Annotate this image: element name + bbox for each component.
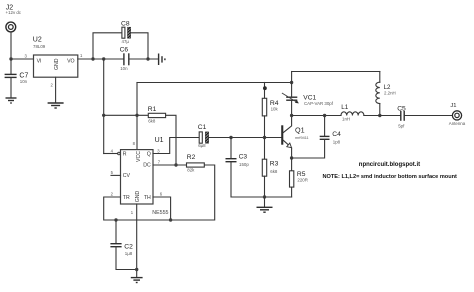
svg-text:CAP-VAR 30pf: CAP-VAR 30pf	[304, 101, 334, 106]
wire pin5 stub	[111, 174, 121, 176]
node bottom R3	[263, 195, 266, 198]
svg-text:2.2nH: 2.2nH	[384, 90, 396, 95]
svg-text:C1: C1	[198, 124, 207, 131]
resistor R3	[262, 138, 278, 198]
capacitor C2	[110, 220, 136, 270]
svg-text:78L09: 78L09	[33, 44, 46, 49]
capacitor C6	[120, 47, 129, 72]
node C8 branch	[91, 57, 94, 60]
svg-text:47µ: 47µ	[122, 39, 130, 44]
svg-text:npncircuit.blogspot.it: npncircuit.blogspot.it	[359, 162, 420, 168]
svg-text:R: R	[123, 151, 127, 157]
transistor Q1	[281, 116, 308, 159]
svg-text:C5: C5	[397, 105, 406, 112]
svg-text:6k8: 6k8	[148, 118, 156, 123]
svg-text:GND: GND	[135, 191, 141, 203]
svg-text:CV: CV	[123, 173, 131, 179]
capacitor C1 electrolytic	[198, 124, 209, 148]
svg-text:1p8: 1p8	[333, 139, 341, 144]
node TH-bottom	[169, 218, 172, 221]
ground under U2	[48, 103, 64, 108]
svg-text:J1: J1	[450, 103, 456, 109]
svg-text:VI: VI	[37, 59, 42, 65]
wire VO to C6	[78, 58, 124, 60]
wire to U2 VI	[11, 58, 34, 60]
wire base line	[209, 137, 282, 139]
IC U1 NE555 timer	[111, 137, 169, 216]
wire vcc feed	[104, 114, 149, 116]
connector J2	[6, 5, 22, 32]
svg-text:82k: 82k	[187, 168, 195, 173]
node vcc-stub	[135, 114, 138, 117]
node collector	[290, 114, 293, 117]
wire vcc vertical	[136, 83, 138, 150]
svg-text:GND: GND	[54, 58, 60, 70]
ground under 555	[131, 278, 143, 283]
svg-text:TH: TH	[144, 195, 151, 201]
svg-text:Q1: Q1	[295, 125, 305, 134]
capacitor C3	[226, 138, 292, 198]
regulator U2 78L09	[33, 37, 83, 77]
svg-text:5pf: 5pf	[398, 123, 405, 128]
capacitor C7	[5, 59, 29, 98]
wire pin6 TH drop	[153, 197, 171, 220]
resistor R1	[148, 106, 166, 123]
wire 555 gnd stem	[136, 204, 138, 277]
wire pin2 TR loop	[104, 165, 215, 220]
capacitor C5	[397, 105, 452, 128]
svg-text:NE555: NE555	[152, 210, 168, 216]
resistor R5	[290, 158, 308, 197]
node supply-left	[9, 57, 12, 60]
inductor L1	[341, 104, 364, 121]
svg-text:mrf9411: mrf9411	[295, 136, 309, 140]
varcap VC1	[282, 72, 334, 116]
svg-text:10n: 10n	[120, 66, 128, 71]
inductor L2	[376, 72, 396, 116]
svg-text:NOTE: L1,L2= smd inductor bott: NOTE: L1,L2= smd inductor bottom surface…	[323, 174, 458, 180]
svg-text:DC: DC	[143, 162, 151, 168]
wire pin7 DC	[153, 164, 187, 166]
capacitor C4	[292, 116, 342, 159]
wire supply drop to pin4	[103, 59, 105, 154]
U2 GND pin wire	[55, 77, 57, 102]
svg-text:1µ8: 1µ8	[125, 251, 133, 256]
svg-text:U2: U2	[33, 37, 42, 44]
node C2 top	[114, 218, 117, 221]
svg-text:150p: 150p	[239, 162, 249, 167]
svg-text:Q: Q	[147, 151, 151, 157]
svg-text:220R: 220R	[297, 177, 308, 182]
node DC junction	[174, 163, 177, 166]
svg-text:6k8: 6k8	[270, 169, 278, 174]
svg-text:C2: C2	[124, 243, 133, 250]
svg-text:R2: R2	[187, 154, 196, 161]
resistor R2	[187, 154, 205, 173]
connector J1	[449, 103, 466, 126]
node supply-VC1	[290, 81, 293, 84]
node gnd-C2	[135, 268, 138, 271]
node C8 right	[146, 57, 149, 60]
wire top RF rail	[292, 71, 380, 73]
svg-text:C4: C4	[332, 131, 341, 138]
svg-text:10n: 10n	[20, 79, 28, 84]
wire J2 to supply node	[10, 32, 12, 59]
svg-text:VO: VO	[67, 59, 75, 65]
wire R1 to DC	[166, 115, 176, 165]
node C3 top	[229, 136, 232, 139]
wire pin3 Q to C1	[153, 138, 199, 154]
capacitor C8 electrolytic	[121, 21, 131, 44]
wire C6 to ground-right	[129, 58, 158, 60]
ground under R3	[257, 197, 273, 212]
wire pin4	[104, 153, 118, 155]
svg-text:R1: R1	[148, 106, 157, 113]
wire top rail	[137, 82, 292, 84]
svg-text:10k: 10k	[271, 106, 279, 111]
resistor R4	[262, 83, 279, 138]
svg-text:Antenna: Antenna	[449, 121, 466, 126]
wire C8 right	[131, 33, 148, 59]
node L2 bottom	[378, 114, 381, 117]
node pin4 drop	[102, 57, 105, 60]
node emitter	[290, 156, 293, 159]
wire tank line left	[292, 115, 341, 117]
node vcc-feed-left	[102, 114, 105, 117]
svg-text:TR: TR	[123, 195, 130, 201]
node R4 top	[263, 86, 267, 90]
svg-text:6µ8: 6µ8	[198, 143, 206, 148]
svg-text:+12v dc: +12v dc	[6, 10, 22, 15]
svg-text:C8: C8	[121, 21, 130, 28]
svg-text:1nH: 1nH	[342, 116, 350, 121]
svg-text:U1: U1	[155, 137, 164, 144]
svg-text:C6: C6	[120, 47, 129, 54]
node C4 top	[323, 114, 326, 117]
ground under C7	[6, 98, 17, 103]
wire tank line right	[364, 115, 400, 117]
svg-text:VCC: VCC	[136, 151, 142, 162]
svg-text:R3: R3	[270, 160, 279, 167]
svg-text:L1: L1	[341, 104, 349, 111]
wire C8 branch left	[93, 33, 122, 59]
ground right of C6	[159, 54, 165, 66]
node R3 top	[263, 136, 266, 139]
svg-text:C3: C3	[239, 153, 248, 160]
